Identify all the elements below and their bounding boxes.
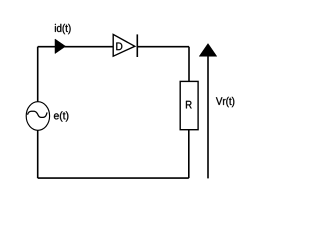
AC source sine wave symbol: [28, 111, 48, 117]
wire: right vertical, bottom corner up to resistor bottom: [188, 130, 190, 178]
wire: left vertical, top corner down to source top: [37, 47, 39, 102]
label D (diode designator): [116, 43, 122, 51]
Vr(t) voltage arrow shaft: [207, 56, 209, 178]
wire: top horizontal from left corner to diode anode: [38, 46, 113, 48]
label e(t): [54, 111, 68, 121]
wire: diode cathode to top-right corner: [137, 46, 189, 48]
Vr(t) voltage arrow head (up): [199, 44, 217, 57]
diode D cathode bar: [136, 34, 138, 57]
current direction arrow id(t): [55, 39, 66, 54]
resistor R body: [180, 81, 198, 129]
wire: left vertical, source bottom down to bottom-left corner: [37, 130, 39, 178]
wire: right vertical, resistor top up to top-right corner: [188, 47, 190, 82]
wire: bottom horizontal: [38, 177, 189, 179]
diode D triangle: [113, 34, 135, 56]
label id(t): [55, 24, 71, 34]
label Vr(t): [216, 97, 234, 107]
AC source e(t) circle: [26, 102, 49, 131]
label R (resistor designator): [186, 101, 192, 109]
